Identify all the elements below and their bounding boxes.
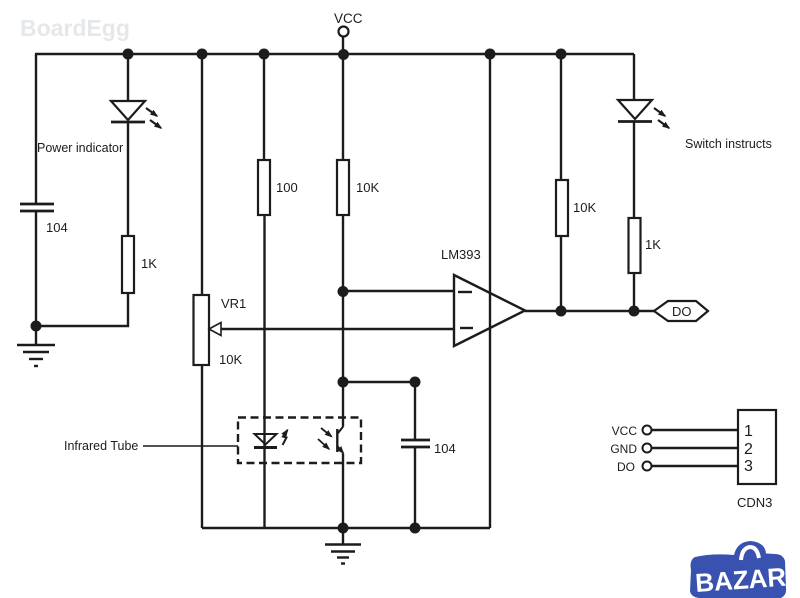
svg-text:CDN3: CDN3 [737,495,772,510]
node top R4 [556,49,567,60]
LED D1 power indicator [111,101,161,128]
svg-text:Power indicator: Power indicator [37,141,123,155]
plus tick [458,291,472,293]
resistor R5 1K [629,218,641,273]
node C2 top [410,377,421,388]
LED D3 infrared emitter [254,430,288,448]
node left ground [31,321,42,332]
VR1 wiper arrow [209,323,221,336]
minus tick [460,327,473,329]
svg-text:3: 3 [744,458,753,475]
svg-text:Switch instructs: Switch instructs [685,137,772,151]
svg-text:LM393: LM393 [441,247,481,262]
capacitor C2 104 [401,440,430,447]
wire mid node to C2 [343,382,415,440]
wire transistor emitter to bottom rail [342,454,344,529]
svg-text:VCC: VCC [612,424,638,438]
node plus input [338,286,349,297]
resistor R3 10K [337,160,349,215]
dashed box infrared tube [238,418,361,464]
node output R4 [556,306,567,317]
svg-text:DO: DO [672,304,692,319]
DO flag [654,301,708,321]
svg-text:104: 104 [434,441,456,456]
node bottom ground [338,523,349,534]
svg-text:Infrared Tube: Infrared Tube [64,439,138,453]
wire mid node to transistor collector [342,382,344,426]
connector CDN3 box [738,410,776,484]
svg-text:DO: DO [617,460,635,474]
svg-text:10K: 10K [573,200,596,215]
wire VR1 top [201,54,203,295]
ground bottom [325,528,361,564]
node top VR1 [197,49,208,60]
node bottom C2 [410,523,421,534]
wire LED2 cathode to R5 [633,122,635,218]
svg-text:1K: 1K [141,256,157,271]
wire LED2 anode [633,54,635,101]
svg-text:100: 100 [276,180,298,195]
wire output [525,310,655,312]
wire R4 bottom [560,236,562,311]
wire R4 top [560,54,562,180]
svg-text:VCC: VCC [334,11,363,26]
svg-text:1: 1 [744,423,753,440]
svg-text:2: 2 [744,441,753,458]
LED D2 switch instructs [618,100,669,128]
node top LED1 [123,49,134,60]
node top x490 [485,49,496,60]
logo BAZAR [690,541,787,598]
wire R1 to IR LED to bottom rail [263,215,265,528]
svg-text:BAZAR: BAZAR [694,562,787,598]
resistor R2 1K [122,236,134,293]
svg-text:1K: 1K [645,237,661,252]
resistor R1 100 [258,160,270,215]
node mid 343,382 [338,377,349,388]
wire R3 top [342,54,344,160]
wire R3 to plus node to mid node [342,215,344,382]
wire R5 to output [633,273,635,311]
wire minus input from VR1 wiper [209,328,454,330]
wire LED1 anode [127,54,129,102]
potentiometer VR1 [194,295,210,365]
resistor R4 10K [556,180,568,236]
wire bottom rail [202,527,490,529]
wire label pointer [143,445,238,447]
svg-text:10K: 10K [356,180,379,195]
op-amp U1 LM393 [454,275,525,346]
svg-text:10K: 10K [219,352,242,367]
wire C2 bottom [414,447,416,528]
wire vertical x490 [489,54,491,528]
wire VCC stub [342,37,344,54]
node top R1 [259,49,270,60]
wire LED1 cathode to R2 [127,122,129,236]
wire R2 to ground node [36,293,128,326]
phototransistor Q1 [318,426,344,453]
svg-text:VR1: VR1 [221,296,246,311]
wire left branch upper [35,54,37,204]
svg-text:GND: GND [610,442,637,456]
svg-text:104: 104 [46,220,68,235]
capacitor C1 104 [20,204,54,211]
wire top rail [35,53,634,55]
wire plus input [343,290,454,292]
wire VR1 bottom [201,365,203,528]
wire left branch lower [35,211,37,326]
VCC terminal [339,27,349,37]
lightning emission arrow [283,430,288,445]
node output LED2 [629,306,640,317]
ground left [17,326,55,366]
wire R1 top [263,54,265,160]
node top VCC [338,49,349,60]
svg-text:BoardEgg: BoardEgg [20,15,130,41]
